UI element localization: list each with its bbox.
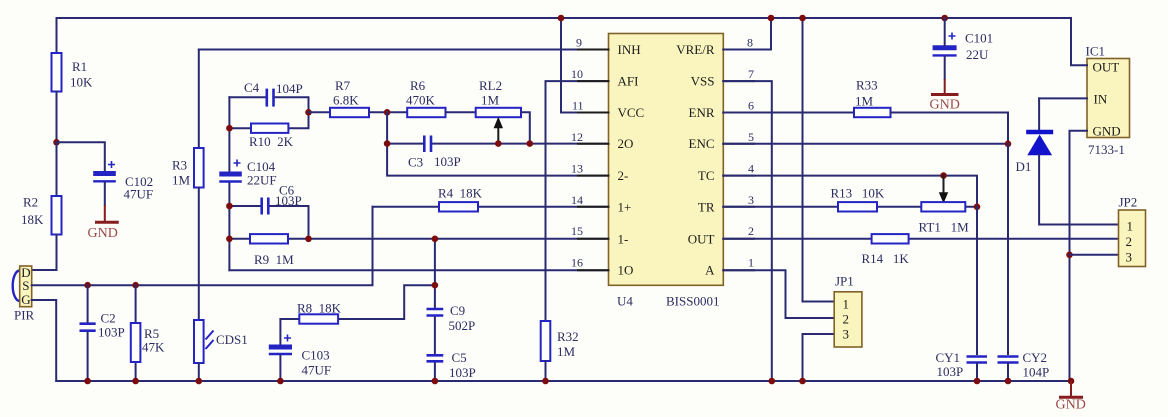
junction VSS bottom — [769, 378, 776, 385]
wire JP1 pin3 to bottom rail — [803, 334, 835, 381]
svg-text:103P: 103P — [449, 365, 476, 380]
svg-text:2-: 2- — [618, 168, 629, 183]
svg-text:1: 1 — [748, 256, 754, 270]
wire R33 right to ENC node — [891, 113, 1009, 144]
svg-text:1-: 1- — [618, 231, 629, 246]
photoresistor CDS1 — [194, 320, 204, 363]
resistor R6 — [407, 108, 445, 117]
wire VRE/R pin8 to rail — [723, 18, 771, 50]
junction RL2 right — [527, 140, 534, 147]
junction R32 bottom — [542, 378, 549, 385]
junction C6 left — [226, 203, 233, 210]
wire OUT pin2 to JP2 — [723, 238, 1118, 240]
wire R6 to RL2 — [446, 111, 476, 113]
resistor R33 — [854, 108, 891, 117]
junction CY2 bottom — [1005, 378, 1012, 385]
svg-text:R3: R3 — [172, 158, 187, 173]
svg-text:2: 2 — [1126, 234, 1133, 249]
svg-text:R4 18K: R4 18K — [438, 186, 483, 201]
svg-text:103P: 103P — [937, 364, 964, 379]
wire CY2 bottom — [1007, 364, 1009, 382]
junction C6/R9 right — [305, 236, 312, 243]
ground symbol C101 — [944, 79, 946, 93]
junction CY1 bottom — [974, 378, 981, 385]
connector JP2 — [1119, 210, 1146, 267]
junction rail JP1 — [799, 15, 806, 22]
wire VSS pin7 to bottom rail — [723, 81, 772, 381]
resistor R9 — [250, 234, 288, 243]
wire left bus x=229.4 (C4/R10/C104/C6/R9) — [228, 97, 230, 171]
wire ENR pin6 to R33 — [723, 112, 854, 114]
wire ENC pin5 — [723, 143, 1008, 145]
svg-text:502P: 502P — [449, 318, 476, 333]
wire AFI net to R32 — [546, 81, 609, 321]
junction wiper — [495, 140, 502, 147]
svg-text:10: 10 — [571, 67, 583, 81]
svg-text:R32: R32 — [557, 329, 579, 344]
svg-text:1M: 1M — [557, 344, 576, 359]
wire CDS1 bottom — [198, 363, 200, 381]
wire CY1 bottom — [976, 364, 978, 382]
junction R8 tap — [432, 282, 439, 289]
svg-text:VSS: VSS — [691, 73, 715, 88]
svg-text:U4: U4 — [617, 294, 633, 309]
resistor R32 — [541, 321, 551, 361]
svg-text:C3: C3 — [408, 155, 423, 170]
wire TC pin4 — [723, 176, 977, 207]
svg-text:IC1: IC1 — [1086, 44, 1106, 59]
resistor R8 — [299, 314, 338, 323]
svg-text:D1: D1 — [1016, 159, 1032, 174]
wire GND bottom rail — [56, 380, 1071, 382]
svg-text:16: 16 — [571, 256, 583, 270]
svg-text:6: 6 — [748, 99, 754, 113]
svg-text:47K: 47K — [142, 340, 165, 355]
svg-text:1M: 1M — [855, 94, 874, 109]
svg-text:2O: 2O — [618, 136, 634, 151]
svg-text:470K: 470K — [406, 93, 436, 108]
wire C3 row / 2O net — [387, 112, 608, 175]
svg-text:TC: TC — [698, 168, 715, 183]
svg-text:1M: 1M — [481, 93, 500, 108]
junction ENC node — [1005, 141, 1012, 148]
junction C2 bottom — [84, 378, 91, 385]
capacitor C6 — [260, 198, 263, 215]
capacitor C102 — [93, 171, 116, 176]
resistor R7 — [330, 108, 369, 117]
wire R7 to R6 — [369, 111, 407, 113]
junction C9 column top — [432, 236, 439, 243]
capacitor C9 — [427, 308, 444, 311]
svg-text:47UF: 47UF — [124, 187, 154, 202]
resistor R4 — [439, 202, 478, 211]
wire ENC node to CY2 — [1007, 144, 1009, 354]
junction R7/R6/C3 — [384, 109, 391, 116]
wire node to R2 — [56, 142, 58, 196]
svg-text:3: 3 — [1126, 250, 1133, 265]
wire TR pin3 — [723, 206, 977, 208]
wire INH net from R3 top — [199, 49, 609, 51]
svg-text:AFI: AFI — [618, 73, 639, 88]
svg-text:3: 3 — [748, 193, 754, 207]
junction R5 bottom — [132, 378, 139, 385]
junction JP2 pin3 — [1066, 252, 1073, 259]
capacitor CY1 — [967, 355, 988, 358]
wire IC1 IN to D1 — [1039, 97, 1087, 99]
wire R4 row / 1+ net — [373, 206, 609, 208]
wire R10 row — [229, 112, 308, 128]
junction R9 left — [226, 236, 233, 243]
U4 pin stubs left — [578, 50, 609, 271]
svg-text:R7: R7 — [335, 78, 351, 93]
svg-text:R2: R2 — [23, 195, 38, 210]
svg-text:103P: 103P — [275, 193, 302, 208]
wire C6 row — [229, 206, 308, 239]
IC U4 BISS0001 — [609, 34, 724, 286]
junction RT1 right — [974, 204, 981, 211]
wire JP2 pin3 stub — [1070, 254, 1119, 256]
svg-text:4: 4 — [748, 162, 754, 176]
svg-text:RT1 1M: RT1 1M — [919, 220, 970, 235]
RT1 wiper arrow — [943, 176, 945, 193]
wire main row to R7 — [309, 111, 331, 113]
resistor R13 — [838, 202, 877, 211]
svg-text:10K: 10K — [70, 75, 93, 90]
wire R1 bottom to node — [56, 92, 58, 143]
svg-text:13: 13 — [571, 162, 583, 176]
svg-text:C9: C9 — [450, 303, 465, 318]
svg-text:C101: C101 — [965, 31, 993, 46]
junction TC wiper tap — [940, 172, 947, 179]
wire RL2 right down to C3 row — [521, 112, 530, 143]
svg-text:18K: 18K — [21, 212, 44, 227]
svg-text:22U: 22U — [966, 47, 989, 62]
svg-text:11: 11 — [572, 99, 584, 113]
svg-text:2: 2 — [843, 312, 850, 327]
svg-text:104P: 104P — [1023, 365, 1050, 380]
wire R32 bottom — [545, 361, 547, 381]
svg-text:R8 18K: R8 18K — [297, 301, 342, 316]
svg-text:7133-1: 7133-1 — [1088, 142, 1125, 157]
svg-text:GND: GND — [1093, 124, 1121, 139]
junction node R1/R2/C102 — [53, 139, 60, 146]
svg-text:7: 7 — [748, 67, 754, 81]
svg-text:JP2: JP2 — [1119, 195, 1138, 210]
wire R5 column — [135, 285, 137, 381]
svg-text:5: 5 — [748, 130, 754, 144]
junction C3 row left — [384, 140, 391, 147]
junction R5 top — [132, 282, 139, 289]
resistor R1 — [52, 53, 62, 92]
svg-text:1+: 1+ — [618, 199, 632, 214]
svg-text:TR: TR — [698, 199, 715, 214]
wire R1 column top — [56, 18, 58, 53]
svg-text:CY2: CY2 — [1023, 350, 1048, 365]
wire A pin1 to JP1 pin2 — [723, 270, 834, 318]
PIR sensor body — [13, 271, 20, 302]
svg-text:VCC: VCC — [618, 105, 645, 120]
junction CDS1 bottom — [196, 378, 203, 385]
wire VCC top rail — [57, 17, 1072, 19]
capacitor C2 — [80, 322, 96, 325]
resistor R10 — [251, 124, 288, 133]
wire C4 row — [229, 97, 308, 112]
connector JP1 — [834, 292, 862, 347]
wire R9 row / 1- net — [229, 238, 608, 240]
svg-text:6.8K: 6.8K — [333, 93, 359, 108]
capacitor C104 — [219, 172, 242, 177]
capacitor C101 — [933, 45, 957, 50]
wire R3 to CDS1 — [198, 188, 200, 321]
resistor R14 — [872, 234, 909, 243]
wire C9/C5 column — [434, 239, 436, 381]
junction C101 rail — [941, 15, 948, 22]
svg-text:VRE/R: VRE/R — [676, 42, 715, 57]
svg-text:R1: R1 — [72, 59, 87, 74]
svg-text:12: 12 — [571, 130, 583, 144]
svg-text:GND: GND — [1056, 398, 1086, 413]
svg-text:A: A — [705, 263, 715, 278]
capacitor C4 — [265, 89, 268, 107]
junction C4/R10 right — [305, 109, 312, 116]
resistor R2 — [52, 196, 62, 235]
svg-text:1O: 1O — [618, 263, 634, 278]
svg-text:GND: GND — [88, 226, 118, 241]
wire R2 bottom to PIR D — [32, 235, 57, 271]
svg-text:R10 2K: R10 2K — [249, 134, 294, 149]
wire IC1 GND down — [1070, 131, 1088, 381]
svg-text:104P: 104P — [276, 81, 303, 96]
wire C102 to ground — [104, 183, 106, 206]
svg-text:CY1: CY1 — [936, 350, 961, 365]
svg-text:103P: 103P — [98, 325, 125, 340]
wire rail to IC1 OUT — [1071, 18, 1087, 65]
capacitor C5 — [427, 354, 444, 357]
svg-text:14: 14 — [571, 193, 583, 207]
resistor R5 — [131, 323, 141, 362]
svg-text:OUT: OUT — [1093, 60, 1120, 75]
junction bottom rail right end — [1068, 378, 1075, 385]
svg-text:R14 1K: R14 1K — [862, 251, 910, 266]
junction pin8 rail — [768, 15, 775, 22]
ground symbol C102 — [104, 205, 106, 221]
svg-text:15: 15 — [571, 224, 583, 238]
junction C103 bottom — [277, 378, 284, 385]
junction C2 top — [84, 282, 91, 289]
svg-text:1: 1 — [1127, 219, 1134, 234]
junction JP1 pin3 bottom — [799, 378, 806, 385]
svg-text:G: G — [21, 292, 30, 307]
ground symbol bottom right — [1070, 381, 1072, 396]
svg-text:GND: GND — [930, 98, 960, 113]
svg-text:1M: 1M — [172, 173, 191, 188]
junction R10 left — [226, 125, 233, 132]
svg-text:OUT: OUT — [688, 231, 715, 246]
svg-text:3: 3 — [843, 327, 850, 342]
svg-text:R9 1M: R9 1M — [254, 252, 294, 267]
RL2 wiper arrow — [497, 127, 499, 144]
svg-text:8: 8 — [747, 36, 753, 50]
svg-text:ENC: ENC — [689, 136, 715, 151]
potentiometer RT1 — [921, 202, 965, 211]
capacitor C103 — [269, 345, 292, 350]
svg-text:R13 10K: R13 10K — [831, 186, 885, 201]
resistor R3 — [194, 148, 204, 188]
svg-text:BISS0001: BISS0001 — [666, 294, 719, 309]
svg-text:R6: R6 — [410, 78, 426, 93]
wire RT1 right to CY1 — [976, 207, 978, 354]
svg-text:IN: IN — [1094, 92, 1108, 107]
svg-text:JP1: JP1 — [835, 274, 854, 289]
svg-text:2: 2 — [748, 224, 754, 238]
capacitor C3 — [423, 136, 426, 153]
U4 pin stubs right — [723, 50, 754, 271]
wire PIR G to bottom rail — [32, 300, 57, 381]
wire PIR S row — [32, 207, 373, 285]
svg-text:C5: C5 — [452, 350, 467, 365]
wire node to C102 — [57, 142, 105, 171]
svg-text:C2: C2 — [101, 311, 116, 326]
wire R3 top column — [198, 50, 200, 149]
svg-text:R33: R33 — [856, 78, 878, 93]
wire rail to JP1 pin1 — [803, 18, 835, 302]
svg-text:C103: C103 — [302, 348, 330, 363]
svg-text:RL2: RL2 — [479, 78, 502, 93]
svg-text:CDS1: CDS1 — [216, 332, 248, 347]
potentiometer RL2 — [476, 108, 521, 117]
wire VCC pin11 — [561, 18, 609, 113]
svg-text:103P: 103P — [434, 154, 461, 169]
svg-text:ENR: ENR — [689, 105, 715, 120]
svg-text:22UF: 22UF — [247, 173, 277, 188]
svg-text:C4: C4 — [244, 80, 260, 95]
wire R8 row — [280, 285, 435, 345]
wire C103 bottom — [279, 355, 281, 381]
IC1 7133-1 — [1087, 59, 1130, 138]
capacitor CY2 — [998, 355, 1019, 358]
CDS1 arrows — [206, 331, 214, 350]
wire C101 bottom to ground — [944, 57, 946, 79]
wire 1O net pin16 — [229, 269, 608, 271]
wire C2 column — [87, 285, 89, 381]
svg-text:PIR: PIR — [14, 308, 35, 323]
svg-text:INH: INH — [618, 42, 641, 57]
svg-text:47UF: 47UF — [302, 363, 332, 378]
svg-text:1: 1 — [843, 297, 850, 312]
junction VCC rail — [558, 15, 565, 22]
svg-text:9: 9 — [576, 36, 582, 50]
junction C5 bottom — [432, 378, 439, 385]
diode D1 — [1038, 98, 1040, 130]
wire C101 top — [944, 18, 946, 45]
